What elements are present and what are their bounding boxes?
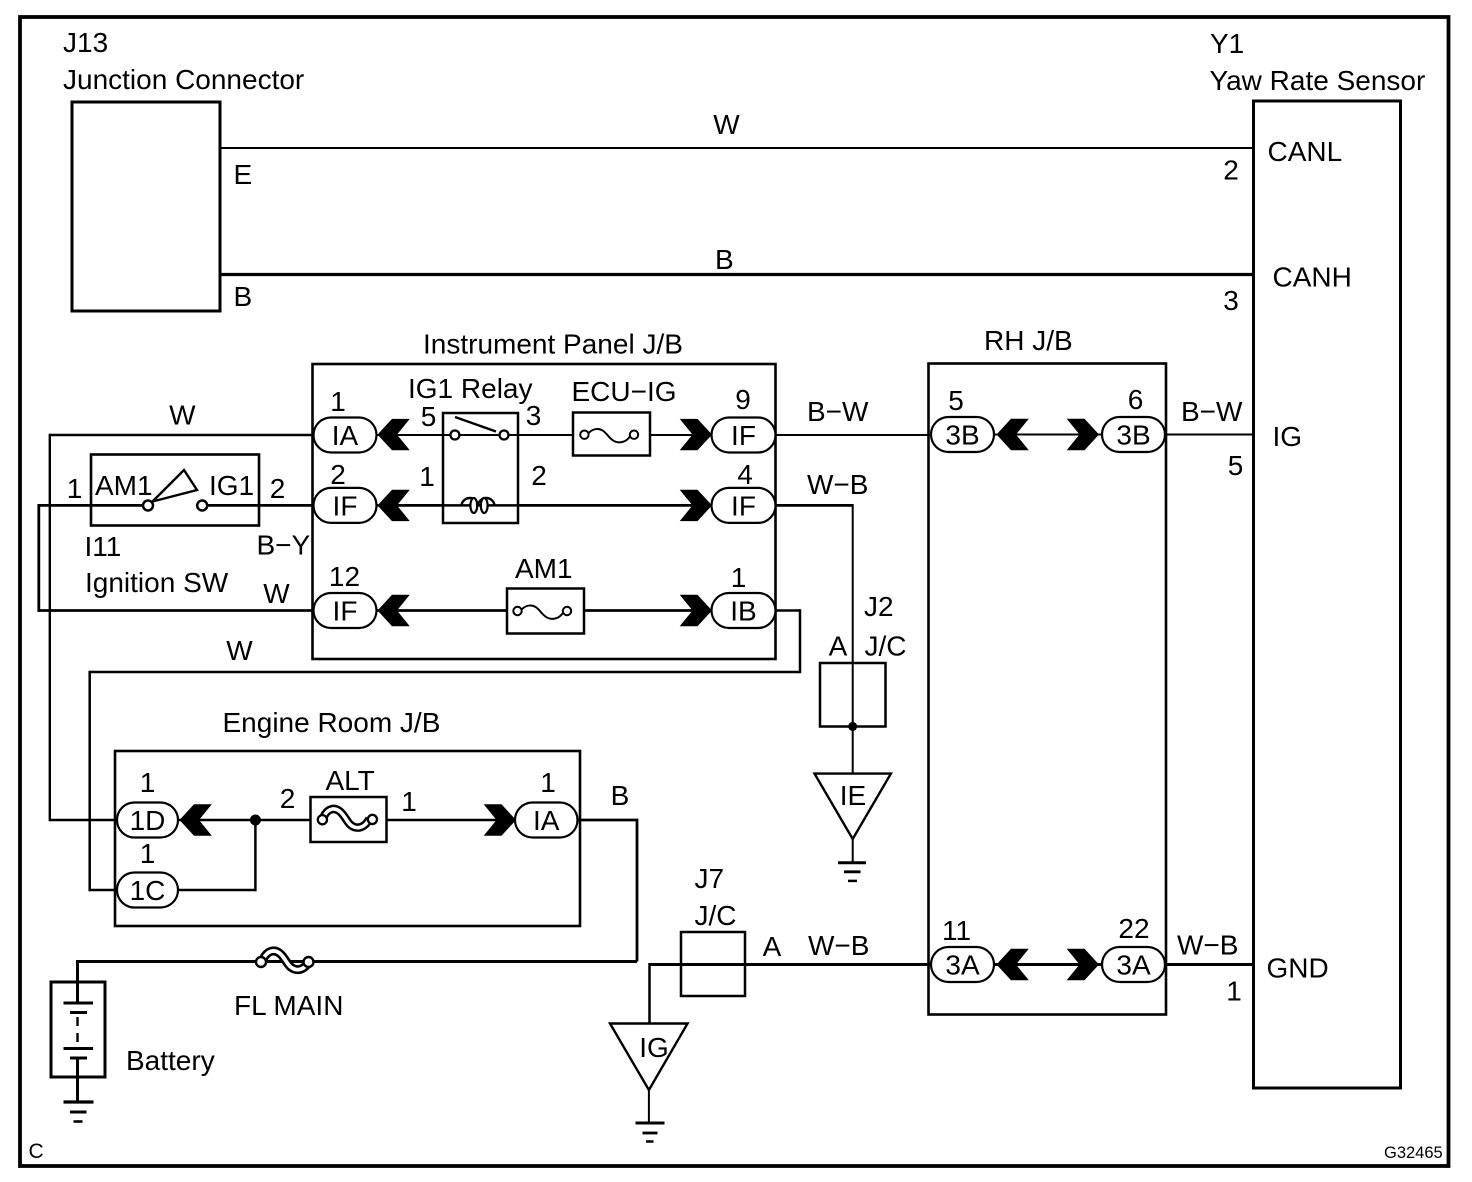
svg-text:Engine Room J/B: Engine Room J/B	[223, 707, 441, 738]
svg-text:IE: IE	[840, 780, 866, 811]
svg-text:IG: IG	[639, 1032, 669, 1063]
svg-text:1: 1	[1226, 976, 1242, 1007]
svg-text:AM1: AM1	[95, 470, 153, 501]
svg-text:B−W: B−W	[1181, 396, 1243, 427]
svg-text:IF: IF	[333, 596, 358, 627]
svg-text:J/C: J/C	[865, 631, 907, 662]
svg-text:J2: J2	[864, 591, 894, 622]
svg-text:Instrument Panel J/B: Instrument Panel J/B	[423, 329, 683, 360]
svg-text:1: 1	[731, 562, 747, 593]
svg-text:B−W: B−W	[807, 396, 869, 427]
svg-text:4: 4	[737, 459, 753, 490]
svg-text:IF: IF	[333, 490, 358, 521]
svg-text:FL MAIN: FL MAIN	[234, 990, 343, 1021]
svg-text:2: 2	[531, 460, 547, 491]
svg-text:1: 1	[540, 767, 556, 798]
svg-text:IG1: IG1	[209, 470, 254, 501]
svg-text:CANL: CANL	[1268, 136, 1343, 167]
svg-text:J/C: J/C	[695, 900, 737, 931]
svg-text:J13: J13	[63, 27, 108, 58]
svg-text:IF: IF	[731, 420, 756, 451]
svg-text:B−Y: B−Y	[257, 530, 311, 561]
svg-text:3B: 3B	[1116, 420, 1150, 451]
svg-text:2: 2	[1223, 155, 1239, 186]
svg-text:2: 2	[280, 783, 296, 814]
svg-text:IF: IF	[731, 490, 756, 521]
svg-text:GND: GND	[1267, 953, 1329, 984]
svg-text:12: 12	[329, 561, 360, 592]
svg-text:1: 1	[419, 461, 435, 492]
svg-text:B: B	[715, 244, 734, 275]
svg-text:W: W	[713, 109, 740, 140]
svg-text:A: A	[763, 931, 782, 962]
svg-text:Ignition SW: Ignition SW	[85, 567, 229, 598]
svg-text:1: 1	[401, 786, 417, 817]
svg-text:E: E	[234, 159, 253, 190]
svg-text:W−B: W−B	[1177, 930, 1238, 961]
svg-text:B: B	[611, 780, 630, 811]
svg-text:A: A	[829, 631, 848, 662]
svg-text:B: B	[234, 281, 253, 312]
svg-text:IG: IG	[1273, 421, 1303, 452]
svg-text:Battery: Battery	[126, 1045, 215, 1076]
svg-text:5: 5	[421, 401, 437, 432]
svg-text:1: 1	[330, 386, 346, 417]
svg-text:IB: IB	[730, 596, 756, 627]
svg-text:W: W	[263, 578, 290, 609]
svg-text:6: 6	[1128, 384, 1144, 415]
svg-text:IA: IA	[332, 420, 359, 451]
svg-text:1C: 1C	[130, 875, 166, 906]
svg-text:3B: 3B	[945, 420, 979, 451]
svg-text:AM1: AM1	[515, 553, 573, 584]
svg-text:J7: J7	[695, 863, 725, 894]
svg-text:I11: I11	[85, 531, 122, 562]
svg-text:Yaw Rate Sensor: Yaw Rate Sensor	[1210, 65, 1426, 96]
svg-text:ALT: ALT	[326, 765, 375, 796]
svg-text:W: W	[226, 635, 253, 666]
svg-text:1: 1	[140, 767, 156, 798]
svg-text:ECU−IG: ECU−IG	[572, 376, 677, 407]
svg-text:9: 9	[735, 384, 751, 415]
svg-text:11: 11	[942, 915, 971, 946]
svg-text:W: W	[169, 400, 196, 431]
svg-text:W−B: W−B	[807, 469, 868, 500]
svg-text:Junction Connector: Junction Connector	[63, 64, 304, 95]
svg-text:5: 5	[1228, 450, 1244, 481]
svg-text:3A: 3A	[1116, 950, 1151, 981]
svg-text:1: 1	[67, 473, 83, 504]
svg-text:1: 1	[140, 838, 156, 869]
svg-text:3: 3	[526, 400, 542, 431]
svg-text:1D: 1D	[130, 805, 166, 836]
svg-text:C: C	[29, 1140, 44, 1163]
svg-text:Y1: Y1	[1210, 28, 1244, 59]
svg-text:G32465: G32465	[1384, 1144, 1443, 1162]
svg-text:5: 5	[948, 385, 964, 416]
svg-text:IA: IA	[533, 805, 560, 836]
svg-text:2: 2	[330, 459, 346, 490]
svg-text:W−B: W−B	[808, 930, 869, 961]
svg-text:RH J/B: RH J/B	[984, 325, 1073, 356]
svg-text:IG1 Relay: IG1 Relay	[408, 373, 533, 404]
svg-text:2: 2	[270, 473, 286, 504]
svg-text:CANH: CANH	[1273, 262, 1352, 293]
svg-text:3: 3	[1223, 285, 1239, 316]
svg-text:3A: 3A	[945, 950, 980, 981]
svg-text:22: 22	[1118, 913, 1149, 944]
